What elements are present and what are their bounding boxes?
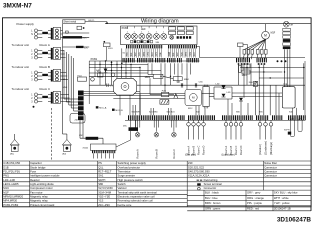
svg-text:Capacitor: Capacitor [30, 161, 42, 165]
svg-text:Ferrite core: Ferrite core [118, 203, 132, 207]
svg-text:WHT : white: WHT : white [274, 196, 289, 200]
svg-text:S32: S32 [196, 112, 201, 114]
svg-text:3: 3 [31, 80, 33, 82]
svg-text:1: 1 [141, 32, 142, 34]
svg-text:Power supply: Power supply [17, 22, 35, 26]
svg-text:3: 3 [31, 102, 33, 104]
svg-text:Noise filter: Noise filter [264, 161, 277, 165]
svg-text:BLU: BLU [152, 52, 154, 56]
svg-text:High pressure switch: High pressure switch [118, 178, 144, 182]
svg-text:RED : red: RED : red [247, 206, 259, 210]
svg-text:RED: RED [169, 52, 171, 57]
svg-text:SA1: SA1 [98, 174, 104, 178]
svg-text:Screw terminal: Screw terminal [204, 182, 222, 186]
svg-text:S20,S21,S22: S20,S21,S22 [188, 165, 205, 169]
svg-text:C1B: C1B [283, 85, 288, 87]
svg-text:R1T~R11T: R1T~R11T [98, 169, 112, 173]
svg-text:(Liquid pipe): (Liquid pipe) [222, 154, 235, 157]
svg-text:(E1): (E1) [10, 154, 14, 156]
svg-text:Intelligent power module: Intelligent power module [30, 174, 60, 178]
svg-text:Magnetic relay: Magnetic relay [30, 199, 48, 203]
svg-text:M: M [264, 34, 267, 38]
svg-text:BLU : blue: BLU : blue [205, 196, 218, 200]
svg-text:Connector: Connector [264, 169, 277, 173]
svg-text:Connector: Connector [264, 174, 277, 178]
svg-text:C1B,C54,C56: C1B,C54,C56 [3, 161, 20, 165]
svg-text:X11A,X12A,X21A: X11A,X12A,X21A [188, 174, 209, 178]
svg-text:Room D: Room D [202, 145, 206, 155]
svg-text:Room B: Room B [155, 149, 159, 159]
svg-text:S40,S70,S80,S90: S40,S70,S80,S90 [188, 169, 210, 173]
svg-text:S80: S80 [156, 42, 160, 44]
svg-text:Switch: Switch [118, 182, 126, 186]
svg-text:PNK: PNK [160, 52, 162, 57]
svg-text:MRM10,MRM20: MRM10,MRM20 [3, 194, 23, 198]
svg-text:Terminal strip with earth term: Terminal strip with earth terminal [118, 190, 158, 194]
svg-text:BRN: BRN [143, 52, 145, 57]
svg-text:S80: S80 [98, 182, 103, 186]
svg-text:PS: PS [98, 161, 102, 165]
svg-text:F1U,F2U,F3U: F1U,F2U,F3U [3, 169, 20, 173]
svg-text:(Discharge): (Discharge) [269, 142, 273, 155]
svg-text:MRM: MRM [145, 77, 150, 79]
svg-text:(Outdoor): (Outdoor) [258, 144, 262, 155]
svg-text:S201: S201 [108, 48, 114, 50]
svg-text:1: 1 [31, 95, 33, 97]
svg-text:M1C: M1C [3, 186, 9, 190]
svg-text:Room C: Room C [172, 149, 176, 159]
svg-text:YLW: YLW [139, 52, 141, 56]
svg-text:MR4,MR30: MR4,MR30 [3, 199, 17, 203]
svg-text:Electronic expansion valve coi: Electronic expansion valve coil [118, 194, 155, 198]
svg-text:Compressor motor: Compressor motor [30, 186, 53, 190]
svg-text:Z1C: Z1C [83, 38, 88, 40]
svg-text:F2U: F2U [162, 91, 167, 93]
svg-text:L1R~L4R: L1R~L4R [3, 178, 15, 182]
svg-text:WHT: WHT [135, 51, 137, 56]
svg-text:PCB1,PCB2: PCB1,PCB2 [3, 203, 18, 207]
svg-text:Z1C~Z9C: Z1C~Z9C [98, 203, 110, 207]
svg-text:Room D: Room D [239, 145, 243, 155]
svg-text:L6D: L6D [227, 92, 231, 94]
svg-text:Overload protector: Overload protector [118, 165, 141, 169]
svg-text:SKY BLU : sky blue: SKY BLU : sky blue [274, 191, 298, 195]
svg-text:GRN : green: GRN : green [205, 206, 221, 210]
svg-text:M: M [192, 96, 195, 100]
svg-text:3: 3 [31, 58, 33, 60]
svg-text:1: 1 [148, 32, 149, 34]
svg-text:BRN: BRN [186, 52, 188, 57]
svg-text:3D106247B: 3D106247B [277, 217, 311, 224]
svg-text:BLK : black: BLK : black [205, 191, 219, 195]
svg-text:2: 2 [31, 98, 33, 100]
svg-text:Room A: Room A [40, 43, 50, 47]
svg-text:BRN : brown: BRN : brown [205, 201, 221, 205]
svg-text:Connector: Connector [264, 165, 277, 169]
svg-text:N: N [31, 34, 33, 36]
svg-text:BLK: BLK [173, 52, 175, 56]
svg-text:L: L [31, 31, 33, 33]
svg-text:MCC-B: MCC-B [115, 110, 123, 112]
svg-text:(E2): (E2) [62, 154, 66, 156]
svg-text:BLU: BLU [194, 52, 196, 56]
svg-text:V1: V1 [110, 85, 113, 87]
svg-text:YLW : yellow: YLW : yellow [274, 201, 290, 205]
svg-text:X11A: X11A [83, 147, 89, 150]
svg-text:To indoor unit: To indoor unit [12, 65, 30, 69]
svg-text:Fan motor: Fan motor [30, 190, 42, 194]
svg-text:F1U: F1U [97, 71, 101, 73]
svg-text:Switching power supply: Switching power supply [118, 161, 147, 165]
svg-text:MCC-A: MCC-A [99, 107, 107, 110]
svg-text:Magnetic relay: Magnetic relay [30, 194, 48, 198]
svg-text:4H: 4H [290, 24, 293, 26]
svg-text:LED: LED [141, 29, 146, 31]
svg-text:M1F: M1F [3, 190, 9, 194]
svg-text:Z8C: Z8C [123, 125, 127, 127]
svg-text:To indoor unit: To indoor unit [12, 87, 30, 91]
svg-text:GRY: GRY [156, 51, 158, 56]
svg-text:L4D: L4D [216, 83, 220, 85]
svg-text:Room A: Room A [136, 149, 140, 158]
svg-text:PPL : purple: PPL : purple [247, 201, 262, 205]
svg-text:1: 1 [134, 32, 135, 34]
svg-text:1: 1 [31, 51, 33, 53]
svg-text:1: 1 [127, 32, 128, 34]
svg-text:Q1L: Q1L [98, 165, 104, 169]
svg-text:(Gas pipe): (Gas pipe) [185, 154, 196, 157]
svg-text:Room C: Room C [40, 87, 51, 91]
svg-text:Printed circuit board: Printed circuit board [30, 203, 55, 207]
svg-text:Field wiring: Field wiring [204, 178, 218, 182]
svg-text:MR4: MR4 [184, 79, 189, 81]
svg-text:Sheet metal: Sheet metal [63, 21, 76, 24]
svg-text:S1PH: S1PH [98, 178, 105, 182]
svg-text:1: 1 [163, 32, 164, 34]
svg-text:BLK: BLK [131, 52, 133, 56]
svg-text:Z4C: Z4C [75, 120, 80, 122]
svg-text:Z2C: Z2C [84, 47, 89, 49]
svg-text:ORG: ORG [148, 51, 150, 56]
svg-text:V2,V3,V150: V2,V3,V150 [98, 186, 113, 190]
svg-text:ORG: ORG [190, 51, 192, 56]
svg-text:Diode bridge: Diode bridge [30, 165, 46, 169]
svg-text:1: 1 [31, 73, 33, 75]
svg-text:GN,YL: GN,YL [88, 20, 95, 22]
svg-text:Connector: Connector [204, 186, 217, 190]
svg-text:Z9C: Z9C [79, 135, 84, 137]
svg-text:Reactor: Reactor [30, 178, 40, 182]
svg-text:3MXM-N7: 3MXM-N7 [3, 3, 32, 10]
svg-text:PM1: PM1 [3, 174, 9, 178]
svg-text:Room B: Room B [40, 65, 51, 69]
svg-text:D1B: D1B [3, 165, 8, 169]
svg-text:(Condenser): (Condenser) [264, 141, 268, 155]
svg-text:To indoor unit: To indoor unit [12, 43, 30, 47]
svg-text:Light-emitting diode: Light-emitting diode [30, 182, 54, 186]
svg-text:2: 2 [31, 54, 33, 56]
svg-text:1: 1 [156, 32, 157, 34]
svg-text:Varistor: Varistor [118, 186, 127, 190]
svg-text:HN3: HN3 [63, 87, 68, 89]
svg-text:Surge arrester: Surge arrester [118, 174, 135, 178]
svg-text:YLW: YLW [181, 52, 183, 56]
svg-text:PCB1: PCB1 [91, 58, 98, 61]
svg-text:Reversing solenoid valve coil: Reversing solenoid valve coil [118, 199, 153, 203]
svg-text:S1PH: S1PH [284, 129, 290, 131]
svg-text:ORG : orange: ORG : orange [247, 196, 264, 200]
svg-text:S1: S1 [123, 53, 126, 55]
svg-text:F1U: F1U [78, 75, 83, 77]
svg-text:Y1E~Y3E: Y1E~Y3E [98, 194, 110, 198]
svg-text:M1F: M1F [271, 33, 276, 35]
svg-text:LED1~LED5: LED1~LED5 [3, 182, 19, 186]
svg-text:S80: S80 [236, 112, 241, 114]
svg-text:RED: RED [127, 52, 129, 57]
svg-text:Fuse: Fuse [30, 169, 37, 173]
svg-text:S90: S90 [259, 112, 264, 114]
svg-text:MR4: MR4 [242, 75, 247, 77]
svg-text:S40: S40 [289, 112, 294, 114]
svg-text:X1M~X4M: X1M~X4M [98, 190, 112, 194]
svg-text:WHT: WHT [177, 51, 179, 56]
svg-text:2: 2 [31, 76, 33, 78]
svg-text:C54: C54 [176, 82, 181, 84]
svg-text:Thermistor: Thermistor [118, 169, 131, 173]
svg-text:Y1S: Y1S [98, 199, 103, 203]
svg-text:GRY : grey: GRY : grey [247, 191, 261, 195]
svg-text:Room C: Room C [197, 145, 201, 155]
svg-text:M1C: M1C [188, 108, 193, 110]
svg-text:Z1F: Z1F [188, 161, 193, 165]
svg-text:C56: C56 [199, 82, 204, 84]
svg-text:3D106247-1B: 3D106247-1B [274, 206, 291, 210]
